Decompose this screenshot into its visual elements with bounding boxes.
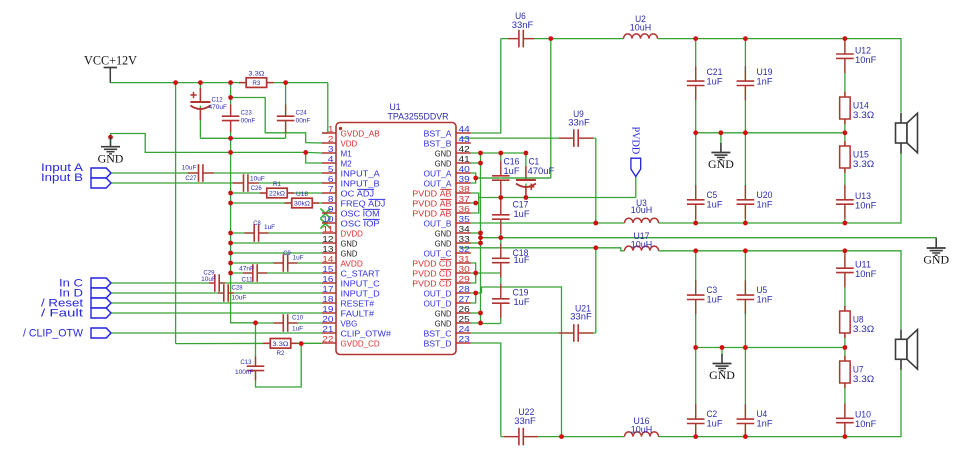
svg-text:GND: GND <box>341 238 358 248</box>
svg-text:3.3Ω: 3.3Ω <box>853 110 874 120</box>
svg-text:BST_B: BST_B <box>424 138 452 148</box>
svg-text:1uF: 1uF <box>707 77 723 87</box>
svg-text:470uF: 470uF <box>528 166 555 176</box>
svg-text:22: 22 <box>322 334 333 344</box>
svg-text:470uF: 470uF <box>209 104 228 111</box>
svg-text:BST_D: BST_D <box>424 338 452 348</box>
svg-text:GND: GND <box>435 238 452 248</box>
svg-text:U7: U7 <box>853 365 864 375</box>
svg-text:00nF: 00nF <box>241 118 256 125</box>
svg-text:GND: GND <box>341 248 358 258</box>
svg-text:U11: U11 <box>855 260 871 270</box>
svg-text:100nF: 100nF <box>235 369 254 376</box>
svg-text:10uH: 10uH <box>631 205 652 215</box>
svg-text:24: 24 <box>459 324 470 334</box>
svg-text:17: 17 <box>322 284 333 294</box>
svg-text:1uF: 1uF <box>514 209 530 219</box>
svg-text:1uF: 1uF <box>264 224 275 231</box>
svg-text:C26: C26 <box>251 185 263 192</box>
svg-text:10nF: 10nF <box>855 55 877 65</box>
svg-text:34: 34 <box>459 224 470 234</box>
svg-text:C24: C24 <box>296 110 308 117</box>
svg-text:33: 33 <box>459 234 470 244</box>
svg-text:GND: GND <box>435 228 452 238</box>
svg-text:1nF: 1nF <box>757 200 773 210</box>
svg-text:42: 42 <box>459 144 470 154</box>
svg-text:GND: GND <box>709 368 735 382</box>
svg-text:GVDD_AB: GVDD_AB <box>341 128 380 138</box>
svg-text:OUT_D: OUT_D <box>424 288 452 298</box>
svg-text:BST_C: BST_C <box>424 328 452 338</box>
svg-text:33nF: 33nF <box>568 118 590 128</box>
svg-text:33nF: 33nF <box>570 312 592 322</box>
svg-text:M1: M1 <box>341 148 352 158</box>
svg-text:38: 38 <box>459 184 470 194</box>
svg-text:1uF: 1uF <box>707 419 723 429</box>
svg-text:14: 14 <box>322 254 333 264</box>
svg-text:35: 35 <box>459 214 470 224</box>
svg-text:32: 32 <box>459 244 470 254</box>
svg-text:INPUT_B: INPUT_B <box>341 178 380 188</box>
svg-text:41: 41 <box>459 154 470 164</box>
svg-text:29: 29 <box>459 274 470 284</box>
svg-text:C19: C19 <box>513 288 529 298</box>
svg-text:1uF: 1uF <box>707 295 723 305</box>
svg-text:22kΩ: 22kΩ <box>269 191 285 198</box>
svg-text:GND: GND <box>923 253 949 267</box>
svg-text:3.3Ω: 3.3Ω <box>273 341 289 348</box>
svg-text:C3: C3 <box>707 285 718 295</box>
svg-text:13: 13 <box>322 244 333 254</box>
svg-text:28: 28 <box>459 284 470 294</box>
svg-text:30kΩ: 30kΩ <box>294 201 310 208</box>
svg-text:2: 2 <box>328 134 334 144</box>
svg-text:R1: R1 <box>273 181 281 188</box>
svg-text:U5: U5 <box>757 285 768 295</box>
svg-text:DVDD: DVDD <box>341 228 363 238</box>
svg-text:U19: U19 <box>757 67 773 77</box>
svg-text:C11: C11 <box>242 277 254 284</box>
svg-text:1: 1 <box>328 124 334 134</box>
svg-text:C13: C13 <box>240 359 252 366</box>
svg-text:U15: U15 <box>853 150 869 160</box>
svg-text:Input B: Input B <box>41 172 83 184</box>
svg-text:GVDD_CD: GVDD_CD <box>341 338 380 348</box>
svg-text:1nF: 1nF <box>757 419 773 429</box>
svg-text:37: 37 <box>459 194 470 204</box>
svg-text:44: 44 <box>459 124 470 134</box>
svg-text:5: 5 <box>328 164 334 174</box>
svg-text:20: 20 <box>322 314 333 324</box>
svg-text:C21: C21 <box>707 67 723 77</box>
svg-text:U1: U1 <box>389 102 400 112</box>
svg-text:19: 19 <box>322 304 333 314</box>
svg-text:U18: U18 <box>296 191 308 198</box>
svg-text:1nF: 1nF <box>757 77 773 87</box>
svg-text:BST_A: BST_A <box>424 128 452 138</box>
svg-text:C5: C5 <box>707 190 718 200</box>
svg-text:10uF: 10uF <box>250 175 265 182</box>
svg-text:1uF: 1uF <box>514 255 530 265</box>
svg-text:36: 36 <box>459 204 470 214</box>
svg-text:21: 21 <box>322 324 333 334</box>
svg-text:40: 40 <box>459 164 470 174</box>
svg-text:1uF: 1uF <box>707 200 723 210</box>
svg-text:/ CLIP_OTW: / CLIP_OTW <box>23 328 83 340</box>
svg-text:AVDD: AVDD <box>341 258 363 268</box>
svg-text:C2: C2 <box>707 409 718 419</box>
svg-text:43: 43 <box>459 134 470 144</box>
svg-text:C8: C8 <box>253 220 261 227</box>
svg-text:3: 3 <box>328 144 334 154</box>
svg-text:7: 7 <box>328 184 334 194</box>
svg-text:OUT_A: OUT_A <box>424 168 452 178</box>
svg-text:3.3Ω: 3.3Ω <box>853 324 874 334</box>
svg-text:R2: R2 <box>277 350 285 357</box>
svg-text:INPUT_C: INPUT_C <box>341 278 380 288</box>
svg-text:OUT_D: OUT_D <box>424 298 452 308</box>
svg-text:31: 31 <box>459 254 470 264</box>
svg-text:3.3Ω: 3.3Ω <box>853 374 874 384</box>
svg-text:1uF: 1uF <box>292 326 303 333</box>
svg-text:OUT_A: OUT_A <box>424 178 452 188</box>
svg-text:C10: C10 <box>292 315 304 322</box>
svg-text:GND: GND <box>435 318 452 328</box>
svg-text:12: 12 <box>322 234 333 244</box>
svg-text:GND: GND <box>435 158 452 168</box>
svg-text:OUT_B: OUT_B <box>424 218 452 228</box>
svg-text:10nF: 10nF <box>855 269 877 279</box>
svg-text:C_START: C_START <box>341 268 381 278</box>
svg-text:C9: C9 <box>283 250 291 257</box>
svg-text:FAULT#: FAULT# <box>341 308 375 318</box>
svg-text:10nF: 10nF <box>855 201 877 211</box>
svg-text:INPUT_A: INPUT_A <box>341 168 380 178</box>
svg-text:RESET#: RESET# <box>341 298 375 308</box>
svg-text:39: 39 <box>459 174 470 184</box>
svg-text:M2: M2 <box>341 158 352 168</box>
svg-text:U8: U8 <box>853 315 864 325</box>
svg-text:10: 10 <box>322 214 333 224</box>
svg-text:10nF: 10nF <box>855 419 877 429</box>
svg-text:INPUT_D: INPUT_D <box>341 288 380 298</box>
svg-text:U10: U10 <box>855 410 871 420</box>
svg-text:10uH: 10uH <box>631 239 652 249</box>
svg-text:GND: GND <box>435 308 452 318</box>
svg-text:33nF: 33nF <box>514 416 536 426</box>
svg-text:VBG: VBG <box>341 318 358 328</box>
svg-text:/ Fault: / Fault <box>41 308 83 320</box>
svg-text:GND: GND <box>435 148 452 158</box>
svg-text:C16: C16 <box>504 157 520 167</box>
svg-text:1uF: 1uF <box>514 297 530 307</box>
svg-text:47nF: 47nF <box>239 266 254 273</box>
svg-text:15: 15 <box>322 264 333 274</box>
svg-text:U20: U20 <box>757 190 773 200</box>
svg-text:1uF: 1uF <box>293 255 304 262</box>
svg-text:U12: U12 <box>855 46 871 56</box>
svg-text:6: 6 <box>328 174 334 184</box>
svg-text:VDD: VDD <box>341 138 358 148</box>
svg-text:U13: U13 <box>855 191 871 201</box>
svg-text:GND: GND <box>708 157 734 171</box>
svg-text:1nF: 1nF <box>757 295 773 305</box>
svg-text:00nF: 00nF <box>296 118 311 125</box>
svg-text:PVDD: PVDD <box>629 127 640 155</box>
svg-text:26: 26 <box>459 304 470 314</box>
svg-text:C12: C12 <box>212 97 224 104</box>
svg-text:8: 8 <box>328 194 334 204</box>
svg-text:1uF: 1uF <box>504 166 520 176</box>
svg-text:25: 25 <box>459 314 470 324</box>
svg-text:CLIP_OTW#: CLIP_OTW# <box>341 328 392 338</box>
svg-text:C27: C27 <box>185 175 197 182</box>
svg-text:27: 27 <box>459 294 470 304</box>
svg-text:OUT_C: OUT_C <box>424 248 452 258</box>
svg-text:10uF: 10uF <box>201 276 216 283</box>
svg-text:10uF: 10uF <box>232 295 247 302</box>
svg-text:10uF: 10uF <box>182 165 197 172</box>
svg-text:C17: C17 <box>513 200 529 210</box>
svg-text:3.3Ω: 3.3Ω <box>248 71 264 78</box>
svg-text:30: 30 <box>459 264 470 274</box>
svg-text:R3: R3 <box>252 80 260 87</box>
svg-text:U14: U14 <box>853 101 869 111</box>
svg-text:18: 18 <box>322 294 333 304</box>
svg-text:C1: C1 <box>529 157 540 167</box>
svg-text:9: 9 <box>328 204 334 214</box>
svg-text:C23: C23 <box>241 110 253 117</box>
svg-text:10uH: 10uH <box>631 424 652 434</box>
svg-text:11: 11 <box>322 224 333 234</box>
svg-text:4: 4 <box>328 154 334 164</box>
svg-text:TPA3255DDVR: TPA3255DDVR <box>388 112 449 122</box>
svg-text:3.3Ω: 3.3Ω <box>853 159 874 169</box>
svg-text:33nF: 33nF <box>512 20 534 30</box>
svg-text:23: 23 <box>459 334 470 344</box>
svg-text:16: 16 <box>322 274 333 284</box>
svg-text:VCC+12V: VCC+12V <box>84 54 137 68</box>
svg-text:10uH: 10uH <box>630 22 651 32</box>
svg-text:U4: U4 <box>757 409 768 419</box>
svg-text:GND: GND <box>98 151 124 165</box>
svg-text:C28: C28 <box>232 285 244 292</box>
